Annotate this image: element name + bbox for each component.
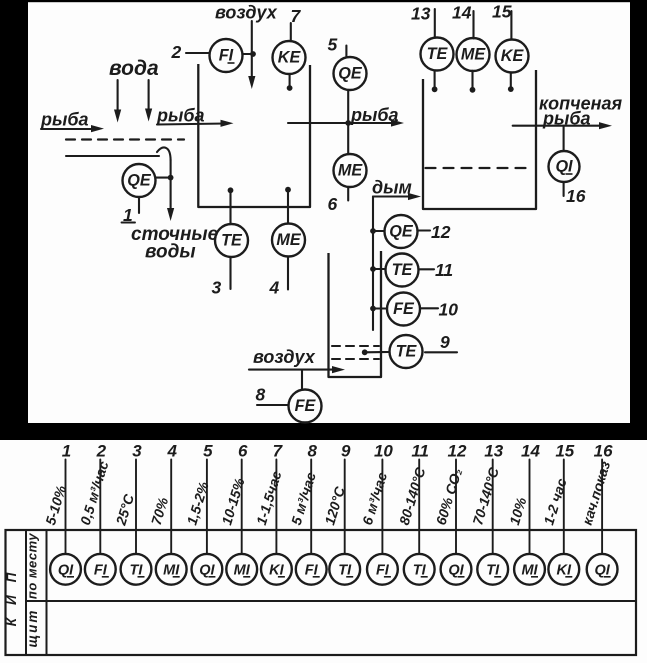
table column 7 lead line — [275, 460, 277, 554]
label 4 — [269, 278, 280, 298]
svg-text:1: 1 — [62, 442, 71, 461]
table instrument MI4 — [156, 554, 187, 585]
table column 15 lead line — [563, 460, 565, 554]
scan frame bottom band — [0, 423, 647, 440]
wire ME6 tail — [347, 188, 349, 201]
label stochnye vody — [131, 224, 219, 263]
table column 11 value label 80-140°С — [396, 465, 429, 527]
table column 6 number — [238, 442, 248, 461]
table column 4 value label 70% — [148, 495, 172, 527]
table column 12 lead line — [455, 460, 457, 554]
vessel apparatus 1 — [198, 64, 310, 207]
bath bottom line — [66, 155, 159, 157]
label voda — [109, 57, 159, 80]
svg-text:QE: QE — [389, 223, 414, 241]
wire TE13 probe — [432, 71, 438, 92]
table instrument MI14 — [514, 554, 545, 585]
svg-text:QE: QE — [338, 65, 363, 83]
table column 8 lead line — [310, 460, 312, 554]
wire QE12 stub, junction — [370, 228, 384, 234]
wire FI2 to air line, junction — [243, 51, 256, 57]
svg-text:9: 9 — [440, 332, 450, 352]
table instrument QI16 — [587, 554, 618, 585]
table instrument FI10 — [367, 554, 398, 585]
smoke generator level dashes row 2 — [332, 358, 379, 360]
table column 8 value label 5 м³/час — [288, 470, 319, 527]
instrument QE5 (quality sensor) — [334, 57, 367, 90]
wire QE5 to ME6 — [347, 91, 349, 154]
label 16 — [566, 186, 586, 206]
instrument FE10 (flow) — [387, 293, 420, 326]
label 9 — [440, 332, 450, 352]
label ryba middle — [350, 105, 399, 125]
smoke generator level dashes row 1 — [332, 345, 379, 347]
instrument TE11 (temperature) — [386, 254, 419, 287]
smoke duct pipe with arrow into smokehouse — [373, 193, 421, 330]
svg-text:16: 16 — [566, 186, 586, 206]
table column 8 number — [307, 442, 317, 461]
instrument TE9 (temperature) — [390, 335, 423, 368]
water inlet arrow 1 — [114, 80, 121, 123]
svg-text:14: 14 — [452, 3, 472, 23]
fish transfer arrow into apparatus 1 — [157, 120, 234, 127]
svg-text:16: 16 — [594, 442, 613, 461]
svg-text:5: 5 — [203, 442, 213, 461]
table column 16 lead line — [601, 460, 603, 554]
table column 14 value label 10% — [506, 495, 530, 527]
svg-text:12: 12 — [448, 442, 467, 461]
svg-text:ME: ME — [276, 231, 301, 249]
table column 3 value label 25°С — [112, 491, 137, 527]
scan frame right bar — [630, 0, 647, 440]
label kopchenaya ryba — [539, 94, 623, 129]
instrument TE3 (temperature) — [215, 224, 248, 257]
scan frame left bar — [0, 0, 28, 425]
wire 14 to ME14 — [472, 11, 474, 39]
label 8 — [256, 385, 266, 405]
table column 10 lead line — [381, 460, 383, 554]
label 10 — [439, 300, 459, 320]
table column 1 number — [62, 442, 71, 461]
instrument QE12 (smoke analyzer) — [385, 215, 418, 248]
table column 3 lead line — [135, 460, 137, 554]
instrument ME4 (humidity) — [272, 224, 305, 257]
svg-text:6: 6 — [328, 194, 338, 214]
instrument TE13 (temperature) — [421, 38, 454, 71]
label dym — [372, 178, 412, 198]
wire TE9 probe, junction — [362, 349, 389, 355]
wire QE12 to label 12 — [418, 229, 431, 231]
fish inlet arrow — [41, 125, 104, 132]
instrument FE8 (air flow) — [289, 390, 322, 423]
svg-text:FE: FE — [295, 397, 317, 415]
wire 8 to FE8 — [257, 404, 288, 406]
svg-text:2: 2 — [171, 42, 182, 62]
label 2 — [171, 42, 182, 62]
table column 14 number — [521, 442, 540, 461]
table column 5 lead line — [206, 460, 208, 554]
table column 12 number — [448, 442, 467, 461]
table column 16 value label кач.показ — [579, 459, 614, 527]
svg-text:15: 15 — [492, 2, 512, 22]
label 13 — [411, 4, 431, 24]
label 11 — [435, 260, 453, 280]
wire 7 to KE7 — [290, 23, 292, 41]
label vozduh bottom — [253, 347, 316, 367]
svg-text:воздух: воздух — [253, 347, 316, 367]
table column 9 lead line — [344, 460, 346, 554]
svg-text:11: 11 — [435, 260, 453, 280]
label 12 — [431, 222, 451, 242]
svg-text:8: 8 — [307, 442, 317, 461]
wire ME4 tail — [287, 257, 289, 290]
table column 9 value label 120°С — [321, 484, 348, 527]
table column 3 number — [132, 442, 142, 461]
svg-text:ME: ME — [338, 162, 363, 180]
table instrument FI8 — [296, 554, 327, 585]
label vozduh top — [215, 3, 278, 23]
svg-text:воды: воды — [145, 242, 196, 263]
drain elbow and waste water arrow — [157, 148, 174, 221]
table instrument QI12 — [441, 554, 472, 585]
svg-text:рыба: рыба — [40, 110, 89, 130]
air inlet arrow into smoke generator — [249, 366, 345, 373]
table column 15 value label 1-2 час — [540, 476, 569, 527]
smoked fish outlet arrow — [513, 122, 612, 129]
table instrument TI9 — [329, 554, 360, 585]
bath water level dashed line — [66, 138, 184, 140]
instrument KE7 (level sensor) — [273, 41, 306, 74]
table column 13 lead line — [492, 460, 494, 554]
table column 2 number — [96, 442, 107, 461]
vessel smoke generator — [329, 251, 382, 377]
svg-text:воздух: воздух — [215, 3, 278, 23]
instrument ME6 (humidity) — [334, 154, 367, 187]
svg-text:2: 2 — [96, 442, 107, 461]
svg-text:12: 12 — [431, 222, 451, 242]
table column 6 value label 10-15% — [218, 476, 248, 527]
table column 9 number — [341, 442, 351, 461]
table row label schit — [25, 609, 40, 648]
wire KE7 probe with tip — [287, 75, 293, 91]
svg-text:3: 3 — [132, 442, 142, 461]
svg-text:13: 13 — [484, 442, 503, 461]
instrument KE15 (level) — [496, 40, 529, 73]
wire TE3 probe in vessel 1 — [228, 187, 234, 224]
table column 11 number — [411, 442, 429, 461]
svg-text:3: 3 — [212, 278, 222, 298]
label 5 — [328, 35, 338, 55]
wire QE1 to drain, junction — [156, 175, 174, 181]
svg-text:QI: QI — [555, 158, 573, 176]
table column 10 value label 6 м³/час — [359, 470, 390, 527]
label ryba 2 — [156, 106, 205, 126]
table column 12 value label 60% СО₂ — [433, 466, 465, 526]
svg-text:7: 7 — [291, 6, 302, 26]
table column 5 number — [203, 442, 213, 461]
table column 1 lead line — [65, 460, 67, 554]
svg-text:10: 10 — [439, 300, 459, 320]
table column 14 lead line — [529, 460, 531, 554]
svg-text:7: 7 — [273, 442, 284, 461]
table column 4 lead line — [170, 460, 172, 554]
svg-text:вода: вода — [109, 57, 159, 80]
label 3 — [212, 278, 222, 298]
svg-text:TE: TE — [396, 343, 418, 361]
label 7 — [291, 6, 302, 26]
svg-text:по месту: по месту — [25, 533, 40, 599]
table column 11 lead line — [418, 460, 420, 554]
table instrument QI1 — [50, 554, 81, 585]
wire KE15 probe — [508, 73, 514, 93]
svg-text:FI: FI — [219, 47, 234, 65]
table column 2 value label 0,5 м³/час — [77, 459, 112, 527]
svg-text:щит: щит — [25, 609, 40, 648]
wire FE10 to label 10 — [421, 307, 438, 309]
table header KIP — [4, 560, 19, 627]
label 6 — [328, 194, 338, 214]
table column 4 number — [166, 442, 177, 461]
water inlet arrow 2 — [145, 80, 152, 122]
svg-text:4: 4 — [166, 442, 177, 461]
table column 6 lead line — [241, 460, 243, 554]
table column 13 value label 70-140°С — [469, 465, 502, 527]
wire 15 to KE15 — [510, 11, 512, 39]
svg-text:КИП: КИП — [4, 560, 19, 627]
table column 2 lead line — [99, 460, 101, 554]
label 14 — [452, 3, 472, 23]
instrument QI16 (quality indicator) — [549, 151, 580, 182]
table instrument MI6 — [226, 554, 257, 585]
wire QI16 tail — [563, 183, 565, 197]
table column 7 value label 1-1,5час — [253, 469, 285, 527]
table frame — [6, 530, 637, 655]
wire QE1 tail — [138, 198, 140, 214]
scan frame top line — [0, 0, 647, 2]
wire FE10 stub, junction — [370, 306, 386, 312]
table instrument FI2 — [85, 554, 116, 585]
table column 15 number — [555, 442, 574, 461]
smokehouse level dashed line — [426, 167, 534, 169]
wire ME4 probe in vessel 1 — [285, 187, 291, 224]
svg-text:KE: KE — [501, 47, 525, 65]
table column 10 number — [374, 442, 393, 461]
table instrument QI5 — [192, 554, 223, 585]
table row label po mestu — [25, 533, 40, 599]
wire ME14 probe — [470, 71, 476, 93]
table instrument TI13 — [477, 554, 508, 585]
svg-text:TE: TE — [392, 261, 414, 279]
svg-text:QE: QE — [127, 172, 152, 190]
svg-text:TE: TE — [221, 232, 243, 250]
wire TE9 to label 9 — [425, 351, 457, 353]
table instrument TI11 — [404, 554, 435, 585]
svg-text:5: 5 — [328, 35, 338, 55]
table instrument KI15 — [548, 554, 579, 585]
fish transfer arrow to smokehouse, junction — [288, 119, 404, 126]
wire 13 to TE13 — [434, 9, 436, 37]
table column 5 value label 1,5-2% — [183, 479, 211, 527]
svg-text:ME: ME — [461, 46, 486, 64]
svg-text:10: 10 — [374, 442, 393, 461]
svg-text:8: 8 — [256, 385, 266, 405]
table column 7 number — [273, 442, 284, 461]
svg-text:9: 9 — [341, 442, 351, 461]
vessel apparatus 2 smokehouse — [423, 70, 536, 209]
table instrument KI7 — [261, 554, 292, 585]
instrument QE1 (water quality sensor) — [123, 164, 156, 197]
svg-text:дым: дым — [372, 178, 412, 198]
table instrument TI3 — [121, 554, 152, 585]
wire 5 to QE5 — [345, 46, 347, 57]
wire TE11 to label 11 — [420, 268, 435, 270]
wire outlet to QI16 — [563, 126, 565, 151]
svg-text:4: 4 — [269, 278, 280, 298]
label 1 — [122, 205, 136, 225]
svg-text:11: 11 — [411, 442, 429, 461]
svg-text:6: 6 — [238, 442, 248, 461]
label 15 — [492, 2, 512, 22]
wire FE8 stub — [301, 370, 303, 389]
svg-text:KE: KE — [278, 49, 302, 67]
svg-text:TE: TE — [427, 45, 449, 63]
svg-text:13: 13 — [411, 4, 431, 24]
svg-text:15: 15 — [555, 442, 574, 461]
svg-text:14: 14 — [521, 442, 540, 461]
label ryba left — [40, 110, 89, 130]
svg-text:FE: FE — [393, 300, 415, 318]
wire TE3 tail — [229, 257, 231, 289]
wire TE11 stub, junction — [370, 266, 385, 272]
table column 13 number — [484, 442, 503, 461]
table column 1 value label 5-10% — [42, 483, 69, 527]
wire 2 to FI2 — [186, 52, 209, 54]
instrument FI2 (water flow) — [210, 39, 243, 72]
air inlet arrow into apparatus 1 — [248, 21, 255, 89]
table column 16 number — [594, 442, 613, 461]
instrument ME14 (humidity) — [457, 38, 490, 71]
